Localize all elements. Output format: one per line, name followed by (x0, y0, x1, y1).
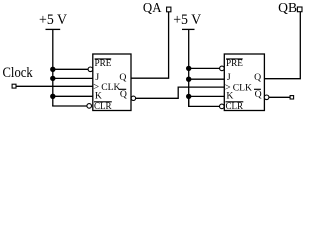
flip-flop U1 box (93, 54, 131, 111)
bubble: PRE of U1 (active low) (88, 67, 93, 72)
bubble: CLR of U2 (active low) (220, 104, 225, 109)
wire: rail2 to K of U2 (189, 95, 225, 97)
pin label CLR of U1 (with overbar) (94, 101, 112, 112)
pin label Qbar of U1 (with overbar) (119, 89, 127, 100)
wire: rail1 elbow to CLR of U1 (53, 104, 87, 107)
svg-text:QB: QB (278, 0, 297, 15)
wire: rail2 to PRE of U2 (189, 67, 220, 69)
junction dot rail2/PRE2 (186, 66, 191, 71)
svg-text:Q: Q (120, 89, 127, 100)
svg-text:K: K (95, 90, 102, 101)
wire: rail2 to J of U2 (189, 78, 225, 80)
svg-text:Clock: Clock (3, 65, 34, 81)
svg-text:Q: Q (254, 72, 261, 83)
svg-text:Q: Q (255, 89, 262, 100)
bubble: Qbar output of U2 (264, 95, 269, 100)
pin label Qbar of U2 (with overbar) (254, 89, 262, 100)
flip-flop U2 box (224, 54, 264, 111)
wire: Qbar of U2 to output terminal (269, 96, 290, 98)
wire: Clock input to CLK of U1 (16, 85, 93, 87)
wire: Q of U1 up to QA terminal (131, 12, 169, 78)
wire: rail1 to K of U1 (53, 95, 93, 97)
svg-text:CLK: CLK (233, 83, 252, 94)
svg-text:PRE: PRE (226, 58, 243, 69)
svg-text:PRE: PRE (95, 58, 112, 69)
pin label CLK of U2 with edge mark (225, 83, 252, 94)
junction dot rail1/K1 (50, 94, 55, 99)
pin label PRE of U2 (with overbar) (226, 58, 243, 69)
wire: +5V rail 2 vertical bus (188, 29, 190, 106)
svg-text:QA: QA (143, 0, 162, 15)
svg-text:+5 V: +5 V (39, 12, 68, 28)
wire: rail1 to J of U1 (53, 77, 93, 79)
junction dot rail1/J1 (50, 76, 55, 81)
output terminal: QB-bar (unlabeled) (290, 96, 294, 99)
wire: rail1 to PRE of U1 (53, 68, 88, 70)
wire: Q of U2 up to QB terminal (264, 12, 300, 79)
output terminal: QB (297, 7, 302, 12)
input terminal: Clock (12, 84, 16, 88)
junction dot rail2/K2 (186, 94, 191, 99)
pin label CLR of U2 (with overbar) (226, 101, 244, 112)
svg-text:K: K (226, 90, 233, 101)
svg-text:Q: Q (119, 72, 126, 83)
svg-text:CLK: CLK (101, 82, 120, 93)
wire: +5V rail 1 vertical bus (52, 29, 54, 106)
junction dot rail1/PRE1 (50, 67, 55, 72)
svg-text:CLR: CLR (94, 101, 112, 112)
power symbol +5V (right) (182, 28, 195, 30)
pin label PRE of U1 (with overbar) (95, 58, 112, 69)
power symbol +5V (left) (46, 28, 61, 30)
output terminal: QA (167, 7, 171, 12)
bubble: CLR of U1 (active low) (87, 104, 92, 109)
wire: Qbar of U1 to CLK of U2 (136, 87, 225, 98)
bubble: PRE of U2 (active low) (220, 66, 225, 71)
bubble: Qbar output of U1 (131, 96, 135, 100)
svg-text:CLR: CLR (226, 101, 244, 112)
junction dot rail2/J2 (186, 77, 191, 82)
pin label CLK of U1 with edge mark (93, 82, 120, 93)
wire: rail2 elbow to CLR of U2 (189, 96, 220, 106)
svg-text:+5 V: +5 V (173, 12, 202, 28)
svg-text:J: J (227, 72, 231, 83)
